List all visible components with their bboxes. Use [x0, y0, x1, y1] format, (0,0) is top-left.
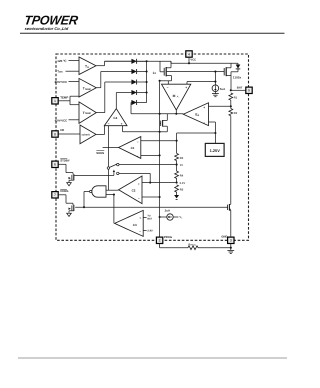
diode D1 [132, 59, 147, 64]
comparator C3 [115, 210, 144, 236]
svg-text:80%*VCC: 80%*VCC [55, 81, 68, 84]
wire gate bus [75, 206, 227, 208]
schmitt trigger U1 [80, 125, 96, 144]
footer rule [18, 357, 287, 359]
node 0.1V [176, 178, 186, 185]
value label 1100x [233, 76, 242, 79]
wire C4 output to diode D4 [116, 93, 131, 109]
wire CE to schmitt [59, 133, 81, 135]
svg-text:CHRG: CHRG [60, 190, 68, 193]
svg-text:1: 1 [54, 99, 56, 103]
svg-text:1V: 1V [180, 164, 183, 167]
comparator TA [79, 57, 96, 75]
svg-text:+: + [203, 106, 205, 110]
svg-text:R1: R1 [234, 96, 238, 99]
svg-text:125 ℃: 125 ℃ [57, 59, 66, 62]
svg-text:−: − [108, 122, 110, 126]
switch SW1 [107, 163, 119, 174]
wire to reference box [214, 133, 216, 143]
comparator C1 [119, 137, 141, 159]
wire VCC pin stub [188, 57, 190, 63]
wire switch top contact to 1V node [119, 164, 177, 166]
svg-text:semiconductor Co.,Ltd: semiconductor Co.,Ltd [24, 27, 68, 31]
comparator C4 [104, 109, 127, 126]
wire TEMP pin to comparators [59, 96, 80, 105]
transistor Q6 CHRG driver [69, 205, 74, 213]
svg-text:C4: C4 [113, 117, 117, 120]
ground at GND pin [227, 250, 234, 253]
wire RPROG to GND [198, 247, 231, 249]
svg-text:−: − [139, 230, 141, 233]
wire C2 minus input [142, 196, 160, 198]
node label TDIS [57, 70, 62, 73]
wire R2 to Q3 drain [230, 116, 232, 205]
transistor Q3 [228, 204, 231, 237]
wire Q4 source to C4 line [160, 131, 168, 133]
svg-text:R3: R3 [180, 157, 184, 160]
op-amp EA [183, 103, 208, 126]
wire G1 input from C3 [106, 194, 115, 224]
svg-text:−: − [138, 197, 140, 200]
resistor R1 [229, 93, 237, 100]
value label 2uA [165, 209, 170, 212]
svg-text:VCC: VCC [190, 58, 196, 61]
diode D2 [132, 69, 147, 74]
svg-text:−: − [167, 86, 169, 90]
wire C1 bottom input to PROG [141, 154, 160, 156]
diode D5 [132, 100, 147, 105]
value label 5uA [220, 88, 225, 91]
svg-text:TDIS: TDIS [57, 70, 62, 73]
logic gate G1 NAND [90, 186, 106, 197]
wire Q5 gate to switch arrow [74, 175, 114, 177]
svg-text:C2: C2 [132, 189, 136, 192]
wire 45%VCC to TL [69, 119, 80, 121]
svg-text:2uA: 2uA [165, 209, 170, 212]
node BAT junction [230, 89, 246, 91]
wire VCC rail [105, 61, 239, 64]
current source I2 2uA [160, 214, 179, 220]
wire C1 output SHDN [103, 146, 119, 148]
wire C4 plus input to PROG net [123, 126, 161, 133]
ground at Q5 [67, 183, 72, 186]
svg-text:−: − [137, 141, 139, 144]
IC boundary (dashed) [56, 54, 249, 240]
wire ladder top [176, 133, 178, 153]
svg-text:R5: R5 [180, 188, 184, 191]
wire TA output to diode D1 [96, 61, 132, 65]
transistor Q5 STDBY driver [69, 174, 74, 182]
node 1V [176, 161, 184, 167]
svg-text:R2: R2 [234, 112, 238, 115]
svg-text:C3: C3 [133, 224, 137, 227]
transistor Q1 1x mirror [160, 61, 172, 81]
logo TPOWER semiconductor [23, 14, 79, 31]
svg-text:SHDN: SHDN [96, 152, 104, 155]
wire EA minus to 1.25V node [209, 122, 217, 134]
pin 3 GND [221, 235, 234, 243]
wire Q1 drain to PROG net top [159, 80, 172, 82]
svg-text:0.1V: 0.1V [180, 182, 186, 185]
wire D5 anode from gate node [130, 103, 133, 114]
op-amp MA [162, 84, 191, 110]
wire GND pin to ground [230, 244, 232, 251]
wire switch common from C4 [107, 126, 109, 167]
switch actuator arrow [113, 170, 115, 176]
wire C2 plus input [142, 182, 177, 184]
node label 2.9V [143, 230, 153, 233]
svg-text:3: 3 [230, 239, 232, 243]
diode bus [146, 60, 148, 102]
resistor R4 [175, 165, 184, 179]
diode D3 [132, 80, 147, 85]
svg-text:TEMP: TEMP [60, 96, 68, 99]
node R1-R2 to EA plus [209, 100, 232, 107]
svg-text:PROG: PROG [164, 236, 172, 239]
svg-text:5: 5 [248, 89, 250, 93]
pin 4 VCC [186, 51, 196, 62]
node label TO BAT [143, 215, 152, 220]
svg-text:TO: TO [147, 215, 150, 218]
wire 1.25V node rail [177, 132, 216, 134]
resistor R3 [175, 153, 184, 160]
svg-text:TPOWER: TPOWER [23, 14, 79, 28]
wire MA output [175, 110, 177, 115]
svg-text:CE: CE [60, 129, 64, 132]
comparator C2 [119, 176, 142, 204]
pin 6 STDBY [52, 159, 70, 168]
svg-text:TA: TA [85, 65, 89, 69]
value label 1x [153, 72, 157, 76]
svg-text:BAT: BAT [237, 86, 243, 89]
wire STDBY pin to Q5 [59, 164, 74, 174]
svg-text:A: A [177, 96, 179, 99]
svg-text:EA: EA [195, 113, 199, 117]
svg-text:8: 8 [54, 133, 56, 137]
node label 45%VCC [55, 119, 68, 122]
svg-text:+: + [185, 86, 187, 90]
svg-text:schmit: schmit [82, 134, 90, 137]
transistor Q4 [160, 114, 168, 132]
svg-text:BAT: BAT [147, 218, 152, 221]
wire PROG pin to RPROG [160, 244, 188, 248]
svg-text:+: + [121, 122, 123, 126]
body diode of Q2 [231, 63, 240, 72]
wire 80%VCC to TH [69, 80, 80, 82]
transistor Q2 power PMOS [224, 63, 231, 90]
ground at R5 [174, 192, 179, 199]
svg-text:GND: GND [221, 235, 227, 238]
node label 125C [57, 59, 66, 62]
svg-text:+: + [137, 155, 139, 158]
wire gate rail to Q2 [166, 71, 224, 73]
svg-text:1.25V: 1.25V [210, 149, 220, 153]
pin 8 CE [52, 129, 65, 137]
wire C1 top input to ladder [141, 140, 178, 142]
wire CHRG pin to Q6 [59, 195, 74, 205]
net PROG vertical [159, 81, 161, 237]
pin 2 PROG [156, 236, 172, 244]
svg-text:1100x: 1100x [233, 76, 242, 79]
svg-text:−: − [203, 122, 205, 126]
net label BAT [237, 86, 243, 89]
resistor RPROG [188, 243, 198, 249]
wire MA minus input [167, 81, 169, 84]
svg-text:C1: C1 [131, 147, 135, 150]
wire MA-EA node line [131, 113, 183, 115]
resistor R2 [229, 106, 237, 116]
svg-text:STDBY: STDBY [60, 159, 70, 162]
node label Vx [179, 216, 182, 219]
svg-text:2: 2 [159, 239, 161, 243]
wire 125C to TA [69, 59, 80, 61]
wire G1 output to gate bus [83, 192, 90, 209]
wire switch bottom contact to C2 [119, 173, 151, 183]
svg-text:45%*VCC: 45%*VCC [55, 119, 68, 122]
svg-text:5uA: 5uA [220, 88, 225, 91]
svg-text:7: 7 [54, 193, 56, 197]
comparator TL [79, 102, 96, 123]
comparator TH [79, 78, 96, 97]
svg-text:6: 6 [54, 163, 56, 167]
ground at I1 [212, 94, 219, 97]
wire schmitt output to C4 [96, 126, 105, 135]
svg-text:+: + [139, 217, 141, 220]
wire TDIS to TA [66, 70, 80, 72]
svg-text:4: 4 [188, 53, 190, 57]
reference 1.25V [205, 143, 224, 156]
node label 80%VCC [55, 81, 68, 84]
wire G1 input from switch [106, 169, 119, 190]
svg-text:M: M [173, 94, 176, 98]
svg-text:1x: 1x [153, 72, 157, 76]
svg-text:R4: R4 [180, 174, 184, 177]
diode D4 [132, 90, 147, 95]
pin 5 BAT [246, 87, 252, 93]
pin 7 CHRG [52, 189, 69, 198]
pin 1 TEMP [52, 96, 69, 104]
current source I1 5uA [212, 72, 219, 94]
wire TL output to diode D3 [96, 82, 131, 113]
svg-text:2.9V: 2.9V [147, 230, 152, 233]
svg-text:+: + [138, 183, 140, 186]
header rule [20, 32, 285, 34]
net label SHDN [96, 151, 104, 155]
ground at Q6 [67, 213, 72, 216]
wire TH output to diode D2 [96, 72, 131, 88]
resistor R5 [175, 185, 184, 192]
wire MA plus input [187, 81, 216, 85]
